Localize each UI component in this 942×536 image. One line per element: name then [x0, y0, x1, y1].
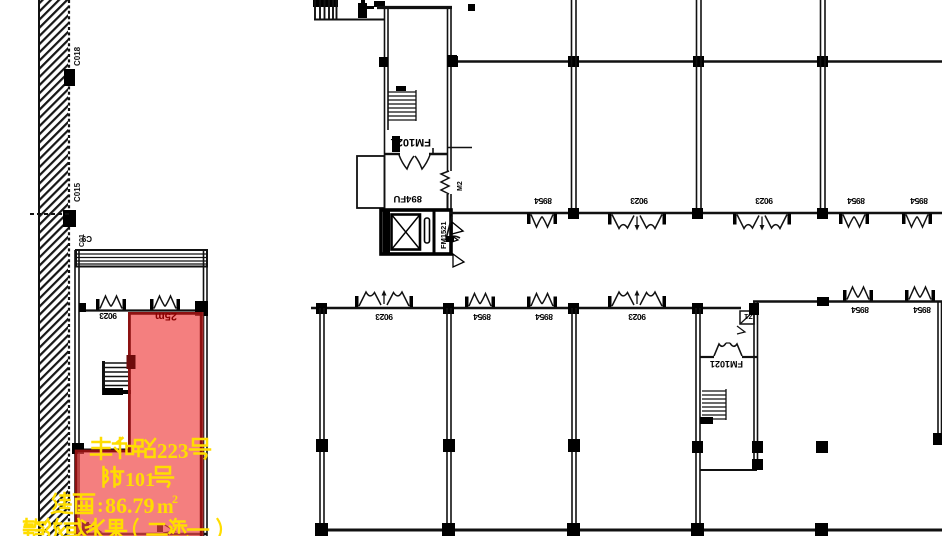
door marks on bottom wall	[82, 522, 89, 534]
top canopy band with lines	[76, 250, 207, 267]
FM label in right cell rotated	[439, 221, 448, 249]
counterweight pill	[425, 218, 430, 243]
label D3 rotated	[755, 196, 773, 206]
label rotated	[628, 312, 646, 322]
dashed tie line across strip	[30, 213, 70, 215]
vertical party wall 1	[319, 308, 321, 530]
small dot top	[468, 4, 475, 11]
small label above band	[81, 234, 92, 243]
enclosure bottom wall	[700, 469, 757, 471]
svg-text:C9: C9	[81, 234, 92, 243]
label rotated	[851, 305, 869, 315]
label 894FU rotated	[393, 193, 422, 204]
enclosure door label rotated	[710, 359, 743, 369]
svg-text:223: 223	[157, 439, 189, 463]
elevator shaft outer wall	[381, 210, 451, 254]
interior wall under red expansion	[76, 449, 130, 451]
shopfront door up 2-leaf at 905 right part	[905, 287, 935, 301]
line1 char he	[113, 438, 133, 458]
label D4 rotated	[847, 196, 865, 206]
tiny label right of squiggle	[457, 181, 464, 191]
top wall	[377, 7, 457, 208]
solid bar at top of stair stub	[313, 0, 338, 7]
wall vertical double 2	[696, 0, 698, 213]
svg-text:9023: 9023	[99, 311, 117, 321]
line1 char hao	[190, 439, 210, 459]
svg-text:9023: 9023	[375, 312, 393, 322]
line4 char can	[24, 519, 44, 536]
vertical party wall 2	[446, 308, 448, 530]
column on strip edge	[64, 69, 75, 86]
double door leaves pointing down	[399, 155, 430, 169]
bottom wall of left building	[75, 533, 207, 536]
door label FM1021 (rotated 180)	[391, 136, 431, 148]
label D5 rotated	[910, 196, 928, 206]
line4 left paren	[134, 519, 138, 536]
line4 char xuan	[168, 519, 188, 536]
svg-text:9023: 9023	[755, 196, 773, 206]
label at left of doors rotated	[99, 311, 117, 321]
door leaf right of elevator	[452, 222, 463, 234]
svg-text:86.79: 86.79	[105, 493, 155, 518]
wall stubs at door opening	[385, 153, 400, 155]
small door at enclosure top	[740, 311, 754, 324]
svg-text:C018: C018	[73, 46, 82, 66]
label D1 rotated	[534, 196, 552, 206]
column right wall	[447, 55, 457, 67]
column blob at corridor top-left	[358, 3, 367, 18]
wall right dotted edge	[68, 0, 70, 536]
shopfront door up 2-leaf at 527	[527, 294, 557, 308]
wall vertical double 3	[820, 0, 822, 213]
svg-text:8954: 8954	[913, 305, 931, 315]
wall vertical double 1	[571, 0, 573, 213]
shopfront door up 2-leaf at 843 right part	[843, 287, 873, 301]
line4 right paren	[218, 519, 222, 536]
vertical party wall 3	[571, 308, 573, 530]
left wall double	[74, 250, 76, 536]
label D2 rotated	[630, 196, 648, 206]
svg-text:FM1021: FM1021	[710, 359, 743, 369]
left wall double line	[384, 7, 386, 208]
line3 char jian	[52, 493, 72, 513]
column at right of doors	[195, 301, 208, 316]
svg-text:8954: 8954	[910, 196, 928, 206]
columns on lower wall	[568, 208, 579, 219]
column top of enclosure right wall	[749, 303, 759, 315]
shopfront wall of left building	[79, 309, 203, 311]
stair treads (vertical lines)	[315, 0, 337, 19]
stairs in enclosure	[702, 389, 726, 420]
line4 char huo	[65, 519, 85, 536]
dark red unit label rotated	[155, 310, 177, 322]
columns on bottom wall	[315, 523, 328, 536]
line2 char hao	[153, 467, 173, 487]
label C018 rotated on strip	[73, 46, 82, 66]
line1 char lu	[135, 439, 155, 457]
left jamb post	[79, 303, 86, 312]
door up 2-leaf at 150	[150, 296, 180, 310]
door D5 2-leaf at 902	[902, 214, 932, 228]
line3 char mian	[74, 495, 94, 514]
svg-text:8954: 8954	[851, 305, 869, 315]
red unit fill	[75, 312, 204, 536]
label C015 rotated on strip	[73, 182, 82, 202]
dark red column on red border	[127, 355, 136, 369]
grid columns on beam	[447, 56, 458, 67]
thick left shaft wall	[383, 210, 390, 254]
elevator car box with X	[392, 215, 421, 250]
door D4 2-leaf at 840	[839, 214, 869, 228]
wall left edge line	[38, 0, 40, 536]
svg-text:C015: C015	[73, 182, 82, 202]
columns on shopfront wall	[316, 303, 327, 314]
shopfront door up 4-leaf at 355	[355, 290, 413, 307]
lower wall with shopfront doors	[450, 212, 942, 215]
upper beam line	[452, 60, 942, 63]
line4 char shui	[86, 519, 105, 536]
right edge wall of bottom building	[937, 301, 939, 437]
door up 2-leaf at 96	[96, 296, 126, 310]
top shopfront wall left part	[311, 307, 741, 309]
svg-text:8954: 8954	[534, 196, 552, 206]
side room protrusion rectangle	[357, 156, 385, 208]
svg-text:894FU: 894FU	[393, 193, 422, 204]
line4 char guo	[106, 520, 126, 536]
svg-text::: :	[97, 495, 104, 517]
mid-height columns	[316, 439, 328, 452]
door D2 4-leaf at 608	[608, 214, 666, 231]
line2 char fu	[104, 467, 124, 487]
line1 char feng	[91, 438, 111, 459]
right wall double	[203, 250, 205, 536]
red unit border	[76, 313, 201, 536]
door D3 4-leaf at 733	[733, 214, 791, 231]
line4 char yin	[45, 519, 64, 536]
shopfront door up 2-leaf at 465	[465, 294, 495, 308]
accordion door squiggle on right wall	[441, 171, 449, 194]
shaft divider	[433, 210, 436, 254]
top shopfront wall right part	[753, 300, 942, 302]
line4 char er	[148, 524, 167, 535]
column at left wall	[72, 443, 84, 454]
hatched wall	[38, 0, 69, 536]
shopfront door up 4-leaf at 608	[608, 290, 666, 307]
svg-text:8954: 8954	[847, 196, 865, 206]
svg-text:M2: M2	[457, 181, 464, 191]
svg-text:9023: 9023	[630, 196, 648, 206]
stairs beside red unit	[104, 361, 130, 395]
vertical party wall 4	[695, 308, 697, 530]
label rotated	[913, 305, 931, 315]
label rotated	[473, 312, 491, 322]
door D1 2-leaf at 528	[527, 214, 557, 228]
enclosure right wall	[753, 301, 755, 470]
svg-text:8954: 8954	[535, 312, 553, 322]
svg-text:101: 101	[125, 469, 155, 491]
landing line	[314, 19, 385, 21]
right wall double line	[447, 7, 449, 171]
door leaves pointing up inside enclosure	[714, 343, 742, 356]
columns on enclosure right wall	[752, 441, 763, 453]
label rotated	[535, 312, 553, 322]
column on strip edge lower	[63, 210, 76, 227]
column left wall	[379, 57, 388, 67]
corner door leaf at corridor/wall junction	[446, 216, 460, 239]
column right edge	[933, 433, 942, 445]
bottom wall	[318, 529, 942, 532]
label rotated	[375, 312, 393, 322]
svg-text:8954: 8954	[473, 312, 491, 322]
small rotated label above lower-left building	[79, 234, 86, 247]
svg-text:9023: 9023	[628, 312, 646, 322]
svg-text:25m: 25m	[155, 310, 177, 322]
line4 char yi	[188, 528, 208, 531]
enclosure inner wall with door	[700, 356, 714, 358]
stairs inside tower	[388, 86, 416, 121]
svg-text:2: 2	[172, 492, 178, 506]
